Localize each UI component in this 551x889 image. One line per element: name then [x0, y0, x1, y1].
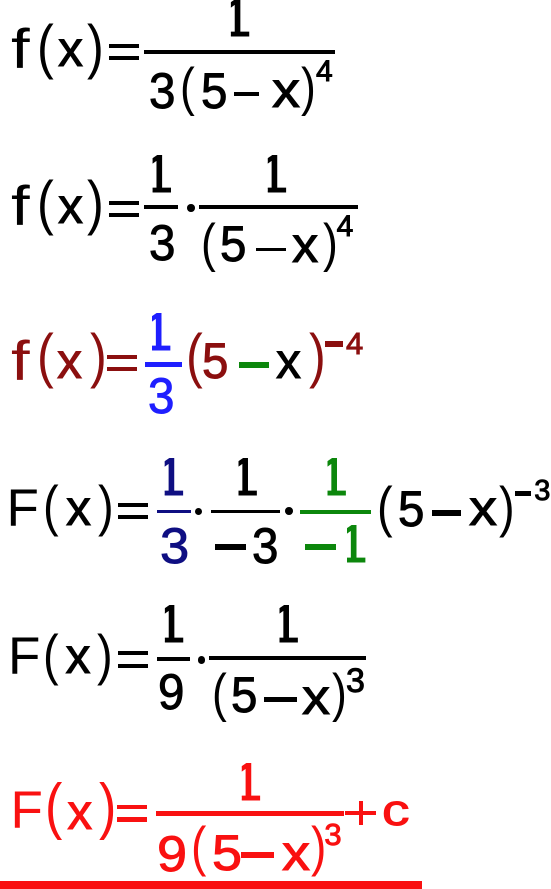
line2 den x	[292, 220, 318, 270]
line3 group open paren	[186, 326, 203, 386]
line4 dot 2	[285, 507, 293, 515]
line4 den2 minus	[305, 544, 336, 550]
line1 x	[58, 24, 83, 74]
line1 open paren	[37, 17, 54, 77]
line2 den minus	[256, 248, 286, 252]
line3 close paren	[90, 326, 107, 386]
line2 times dot	[187, 204, 195, 212]
line1 denominator 3	[149, 66, 175, 116]
line1 den open paren	[180, 61, 195, 114]
line3 equals bottom bar	[107, 367, 137, 371]
line2 f	[11, 178, 30, 234]
line5 den close paren	[332, 667, 347, 720]
line5 exponent 3	[346, 664, 365, 698]
line5 denominator 9	[158, 667, 184, 717]
line2 numerator2 1	[259, 148, 288, 201]
line6 plus vertical	[359, 801, 364, 826]
line1 close paren	[87, 17, 104, 77]
line5 den x	[302, 672, 330, 722]
line4 fraction bar 1	[157, 510, 192, 513]
line3 denominator 3	[148, 371, 174, 421]
line3 group close paren	[309, 326, 326, 386]
line5 den 5	[231, 670, 257, 720]
line6 equals bottom bar	[117, 817, 147, 821]
line1 fraction bar	[144, 50, 335, 54]
line2 den 5	[220, 219, 246, 269]
line6 result underline	[0, 881, 422, 889]
line4 group 5	[398, 484, 424, 534]
line4 equals top bar	[118, 503, 148, 507]
line4 superscript minus	[515, 491, 531, 496]
line4 denominator 3	[160, 521, 189, 571]
line1 den minus	[234, 92, 260, 96]
line1 f	[11, 21, 30, 77]
line4 equals bottom bar	[118, 515, 148, 519]
line6 den x	[282, 828, 310, 878]
line4 F	[7, 482, 39, 535]
line4 group open paren	[377, 479, 393, 535]
line4 open paren	[43, 478, 59, 534]
line1 equals top bar	[109, 44, 140, 48]
line6 numerator 1	[233, 756, 262, 809]
line3 f	[11, 333, 30, 389]
line1 den 5	[201, 66, 227, 116]
line4 close paren	[98, 478, 114, 534]
line2 exponent 4	[337, 212, 354, 242]
line5 fraction bar 1	[157, 657, 190, 661]
line3 green minus	[239, 362, 269, 368]
line2 den close paren	[323, 217, 338, 270]
line3 group x	[276, 336, 301, 386]
line6 denominator 9	[157, 829, 187, 879]
line4 den 3	[252, 521, 278, 571]
line1 equals bottom bar	[109, 56, 140, 60]
line4 group close paren	[499, 479, 515, 535]
line2 equals top bar	[109, 201, 140, 205]
line2 fraction bar 2	[199, 205, 358, 209]
line1 den close paren	[301, 61, 316, 114]
line5 equals bottom bar	[118, 664, 148, 668]
line6 open paren	[45, 776, 62, 838]
line2 den open paren	[201, 217, 216, 270]
line2 equals bottom bar	[109, 213, 140, 217]
line6 plus horizontal	[345, 811, 376, 816]
line5 F	[8, 630, 40, 683]
line3 superscript 4	[346, 328, 363, 359]
line5 close paren	[97, 627, 113, 683]
line4 numerator2 1	[230, 451, 259, 504]
line6 den close paren	[311, 819, 326, 874]
line4 numerator 1	[156, 451, 185, 504]
line5 numerator2 1	[271, 598, 300, 651]
line2 x	[58, 181, 83, 231]
line4 superscript 3	[534, 477, 550, 506]
line6 exponent 3	[324, 819, 341, 850]
line4 dot 1	[195, 508, 202, 515]
line2 open paren	[37, 173, 54, 233]
line3 superscript minus	[325, 341, 343, 347]
line6 den open paren	[191, 819, 206, 874]
line2 close paren	[87, 173, 104, 233]
line4 den2 1	[338, 518, 367, 571]
line6 fraction bar	[156, 811, 344, 816]
line3 group 5	[202, 336, 228, 386]
line5 den minus	[264, 697, 298, 703]
line6 close paren	[99, 776, 116, 838]
line4 x	[66, 483, 91, 533]
line6 den 5	[212, 828, 242, 878]
line6 den minus	[241, 852, 274, 859]
line6 c	[382, 789, 410, 833]
line1 exponent 4	[316, 57, 333, 87]
line2 numerator 1	[144, 148, 173, 201]
line5 numerator 1	[156, 598, 185, 651]
line1 numerator 1	[222, 0, 251, 45]
line4 fraction bar 2	[211, 510, 280, 514]
line2 denominator 3	[149, 218, 175, 268]
line5 den open paren	[212, 667, 227, 720]
line5 equals top bar	[118, 651, 148, 655]
line3 open paren	[37, 326, 54, 386]
line5 times dot	[198, 656, 206, 664]
line1 den x	[272, 65, 300, 115]
line5 x	[66, 631, 91, 681]
line4 den minus	[215, 544, 246, 550]
line2 fraction bar 1	[144, 205, 178, 209]
line4 numerator3 1	[319, 451, 348, 504]
line3 x	[57, 336, 82, 386]
line3 equals top bar	[107, 355, 137, 359]
line3 numerator 1	[143, 306, 172, 359]
line6 equals top bar	[117, 805, 147, 809]
line5 open paren	[43, 627, 59, 683]
line4 group x	[469, 483, 497, 533]
line6 x	[67, 787, 92, 837]
line5 fraction bar 2	[209, 656, 366, 660]
line6 F	[11, 784, 43, 837]
line4 group minus	[432, 510, 461, 516]
line4 fraction bar 3	[300, 510, 371, 514]
line3 fraction bar	[145, 362, 182, 367]
